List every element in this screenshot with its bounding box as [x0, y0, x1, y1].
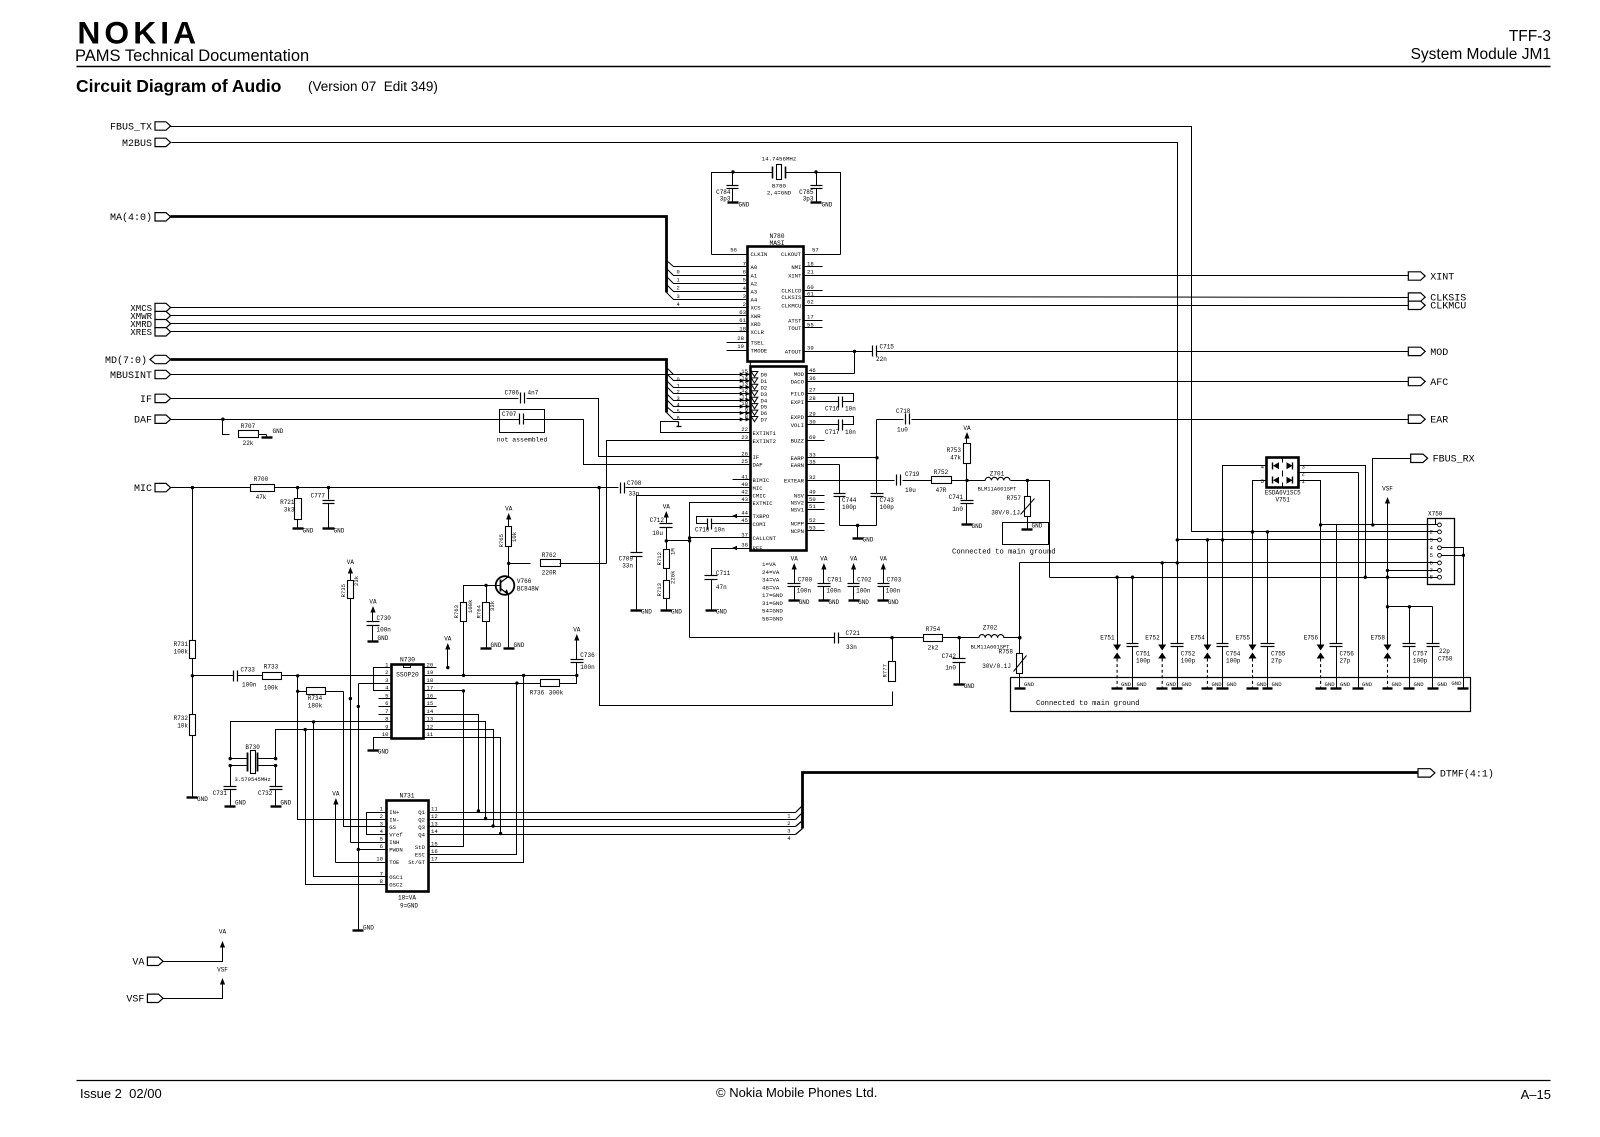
wire Q3 to DTMF bus [441, 826, 796, 828]
svg-text:C700: C700 [798, 577, 813, 584]
svg-text:GND: GND [1166, 681, 1177, 688]
svg-text:47k: 47k [950, 455, 961, 462]
svg-text:XRES: XRES [130, 328, 152, 338]
svg-text:C712: C712 [650, 517, 665, 524]
ground C732 [271, 805, 282, 807]
wire N731 PWDN [359, 849, 387, 851]
ground R707 [266, 435, 268, 438]
wire EXTINT1 [661, 422, 733, 433]
svg-text:C758: C758 [1438, 656, 1453, 663]
wire CMIC / capacitor C709 33n [637, 496, 751, 553]
N780 pin 18 NMI [804, 266, 823, 268]
N780 pin 5 A2 [730, 283, 748, 285]
svg-text:PAMS Technical Documentation: PAMS Technical Documentation [75, 47, 309, 65]
svg-text:C742: C742 [942, 653, 957, 660]
ground C709 [631, 609, 642, 611]
svg-text:61: 61 [739, 317, 746, 324]
ground [1404, 687, 1415, 689]
svg-text:Q2: Q2 [418, 817, 425, 824]
svg-text:C733: C733 [241, 667, 256, 674]
svg-text:3: 3 [380, 821, 383, 828]
svg-text:1n0: 1n0 [952, 506, 963, 513]
resistor R764 33k [486, 586, 488, 603]
svg-text:GND: GND [1340, 681, 1351, 688]
wire N731 OSC2 [306, 730, 387, 885]
svg-text:7: 7 [385, 708, 388, 715]
wire N730 pin1-pin4 bracket [374, 668, 392, 691]
svg-text:R763: R763 [453, 605, 460, 618]
wire MBUSINT to D0 [171, 374, 733, 376]
svg-text:R733: R733 [264, 664, 279, 671]
svg-text:CLKMCU: CLKMCU [1430, 302, 1466, 313]
svg-text:GND: GND [1182, 681, 1193, 688]
wire XMCS [171, 307, 730, 309]
svg-text:3: 3 [787, 829, 790, 835]
wire CLKMCU [823, 305, 1409, 307]
svg-text:XINT: XINT [788, 272, 802, 279]
bus tap MD4 [667, 394, 733, 401]
bus tap MD7 [667, 413, 733, 420]
svg-text:C711: C711 [716, 570, 731, 577]
inductor Z701 BLM11A601SPT [985, 477, 1010, 480]
port VSF [147, 994, 163, 1002]
capacitor C712 10u with VA [664, 511, 669, 518]
svg-text:GND: GND [1392, 681, 1403, 688]
svg-text:1u0: 1u0 [897, 427, 908, 434]
svg-text:GND: GND [1257, 681, 1268, 688]
N731 pin 12 Q2 [429, 819, 441, 821]
svg-text:EXTINT1: EXTINT1 [753, 430, 777, 437]
svg-text:10n: 10n [845, 406, 856, 413]
svg-text:PWDN: PWDN [389, 847, 402, 854]
svg-text:R765: R765 [498, 534, 505, 547]
wire VSF port [163, 987, 223, 999]
svg-text:GND: GND [197, 796, 208, 803]
crystal B780 14.7456MHz [772, 167, 774, 179]
N731 pin 14 Q4 [429, 834, 441, 836]
N780 pin 60 CLKLCD [804, 290, 823, 292]
svg-text:Circuit Diagram of Audio: Circuit Diagram of Audio [76, 76, 281, 96]
svg-text:45: 45 [741, 517, 748, 524]
svg-text:180k: 180k [308, 703, 323, 710]
port XMWR [155, 311, 171, 319]
svg-text:10u: 10u [905, 487, 916, 494]
svg-text:47k: 47k [256, 494, 267, 501]
svg-text:100p: 100p [1136, 658, 1151, 665]
bus tap MA4 [667, 293, 730, 300]
svg-text:GND: GND [828, 599, 839, 606]
svg-text:23: 23 [741, 434, 748, 441]
wire crystal loop [712, 173, 773, 255]
wire XRES [171, 331, 730, 333]
svg-text:GND: GND [964, 683, 975, 690]
svg-text:21: 21 [807, 269, 814, 276]
N780 pin 61 XRD [730, 323, 748, 325]
svg-text:INH: INH [389, 839, 399, 846]
svg-text:ATOUT: ATOUT [785, 349, 802, 356]
wire XMRD [171, 323, 730, 325]
svg-text:REF: REF [753, 545, 763, 552]
svg-text:CLKOUT: CLKOUT [781, 251, 802, 258]
svg-text:EXTEAR: EXTEAR [784, 478, 805, 485]
wire R712 node to CALLCNT vertical [667, 540, 690, 542]
svg-text:VA: VA [369, 599, 377, 606]
svg-text:4: 4 [787, 836, 790, 842]
svg-text:30V/0.1J: 30V/0.1J [991, 510, 1020, 517]
svg-text:0: 0 [677, 270, 680, 276]
svg-text:FILO: FILO [791, 390, 805, 397]
bus tap MD1 [667, 374, 733, 381]
svg-text:R713: R713 [656, 583, 663, 596]
wire X750 row7 [1388, 570, 1438, 572]
svg-text:1: 1 [677, 278, 680, 284]
svg-text:300k: 300k [549, 690, 564, 697]
port MIC [155, 483, 171, 491]
connector X750 [1428, 519, 1455, 585]
svg-text:R752: R752 [934, 469, 949, 476]
N780 pin 27 FILO [807, 393, 825, 395]
resistor R700 47k [251, 485, 275, 492]
wire FBUS_RX to X750 pin1 [1373, 459, 1411, 525]
N780 pin 11 D4 [733, 400, 751, 402]
svg-text:1=VA: 1=VA [762, 561, 776, 568]
footer rule [77, 1080, 1551, 1082]
svg-text:GND: GND [491, 642, 502, 649]
wire ESt to N730 pin18 [429, 684, 517, 855]
svg-text:A–15: A–15 [1521, 1087, 1551, 1102]
port M2BUS [155, 138, 171, 146]
IC N730 SSOP20 [392, 665, 424, 739]
port FBUS_TX [155, 122, 171, 130]
svg-text:23k: 23k [353, 575, 360, 586]
svg-text:VSF: VSF [1382, 486, 1393, 493]
svg-text:NSV2: NSV2 [791, 500, 804, 507]
N780 pin 3 A4 [730, 299, 748, 301]
ground C702 [849, 599, 860, 601]
svg-text:DAF: DAF [134, 416, 152, 427]
svg-text:5: 5 [1261, 478, 1264, 485]
svg-text:18: 18 [807, 261, 814, 268]
N780 pin 41 BIMIC [733, 479, 751, 481]
capacitor C755 27p [1267, 532, 1269, 644]
svg-text:R757: R757 [1007, 495, 1022, 502]
wire ATOUT to C715 [823, 351, 873, 353]
svg-text:VA: VA [573, 627, 581, 634]
wire R735 to N731 INH [351, 842, 387, 844]
svg-text:10u: 10u [652, 530, 663, 537]
suppressor E758 [1384, 645, 1392, 651]
wire N730 pin3 [359, 683, 392, 685]
svg-text:IF: IF [753, 454, 760, 461]
svg-text:53: 53 [809, 524, 816, 531]
wire MIC net [171, 487, 619, 489]
svg-text:VA: VA [347, 559, 355, 566]
svg-text:GND: GND [363, 925, 374, 932]
N780 pin 69 BUZZ [807, 440, 825, 442]
varistor R757 30V/0.1J [1027, 481, 1029, 497]
svg-text:GS: GS [389, 824, 396, 831]
svg-text:A4: A4 [751, 297, 758, 304]
capacitor C706 4n7 [520, 393, 522, 404]
wire St/GT to N730 pin19 [429, 676, 524, 863]
capacitor C754 100p [1222, 540, 1224, 644]
svg-text:10k: 10k [177, 723, 188, 730]
svg-text:EXTMIC: EXTMIC [753, 500, 774, 507]
svg-text:GND: GND [858, 599, 869, 606]
svg-text:GND: GND [378, 749, 389, 756]
svg-text:Q1: Q1 [418, 809, 425, 816]
svg-text:37: 37 [741, 531, 748, 538]
resistor R712 1M [664, 550, 670, 569]
svg-text:27p: 27p [1271, 658, 1282, 665]
svg-text:C777: C777 [311, 493, 326, 500]
svg-text:8: 8 [1430, 574, 1434, 581]
N780 pin 55 TOUT [804, 327, 823, 329]
bus tap MD3 [667, 387, 733, 394]
svg-text:1: 1 [787, 814, 790, 820]
ground [1458, 687, 1469, 689]
capacitor C742 1n0 [959, 638, 961, 659]
svg-text:R777: R777 [882, 664, 889, 677]
svg-text:100k: 100k [174, 649, 189, 656]
svg-text:C731: C731 [213, 790, 228, 797]
suppressor E751 [1117, 578, 1119, 645]
ground [1247, 687, 1259, 689]
capacitor C703 100n with VA [881, 563, 886, 570]
svg-text:VA: VA [505, 506, 513, 513]
svg-text:2: 2 [787, 821, 790, 827]
svg-text:MIC: MIC [753, 485, 764, 492]
svg-text:MASI: MASI [769, 240, 784, 247]
svg-text:2k2: 2k2 [928, 645, 939, 652]
svg-text:N730: N730 [400, 657, 415, 664]
svg-text:C703: C703 [887, 577, 902, 584]
svg-text:58=GND: 58=GND [762, 615, 783, 622]
svg-text:28: 28 [737, 335, 744, 342]
svg-text:GND: GND [716, 609, 727, 616]
N780 pin 26 IF [733, 456, 751, 458]
svg-text:3: 3 [1430, 536, 1434, 543]
svg-text:1n0: 1n0 [945, 665, 956, 672]
svg-text:32: 32 [809, 474, 816, 481]
capacitor C718 1u0 [877, 419, 904, 421]
svg-text:C744: C744 [842, 497, 857, 504]
svg-text:Issue 2 02/00: Issue 2 02/00 [80, 1086, 162, 1101]
svg-text:GND: GND [1325, 681, 1336, 688]
svg-text:C707: C707 [502, 411, 517, 418]
N780 pin 30 VOLI [807, 424, 825, 426]
svg-text:C706: C706 [505, 390, 520, 397]
capacitor C757 100p [1409, 607, 1411, 644]
svg-text:C730: C730 [377, 615, 392, 622]
svg-text:46: 46 [809, 367, 816, 374]
svg-text:56: 56 [730, 247, 737, 254]
svg-text:57: 57 [812, 247, 819, 254]
svg-text:47n: 47n [716, 584, 727, 591]
port MA(4:0) [155, 213, 171, 221]
svg-text:4: 4 [1430, 544, 1434, 551]
N780 pin 61 CLKSIS [804, 296, 823, 298]
capacitor C751 100p [1132, 578, 1134, 644]
svg-text:61: 61 [807, 290, 814, 297]
X750 pin 2 [1438, 530, 1442, 534]
N731 pin 15 StD [429, 846, 441, 848]
svg-text:GND: GND [1227, 681, 1238, 688]
svg-text:BUZZ: BUZZ [791, 438, 805, 445]
svg-text:27p: 27p [1340, 658, 1351, 665]
capacitor C743 100p [876, 458, 878, 494]
ground [1428, 687, 1439, 689]
svg-text:GND: GND [799, 599, 810, 606]
svg-text:R734: R734 [308, 695, 323, 702]
svg-text:50: 50 [809, 496, 816, 503]
svg-text:100p: 100p [1181, 658, 1196, 665]
svg-text:NMI: NMI [791, 264, 801, 271]
wire B730 left to N730 pin8 [231, 722, 392, 759]
svg-text:100n: 100n [886, 588, 901, 595]
svg-text:GND: GND [972, 523, 983, 530]
wire N730 pin13 to Q2 [437, 722, 486, 819]
svg-text:2: 2 [677, 286, 680, 292]
svg-text:GND: GND [1121, 681, 1132, 688]
resistor R731 100k [192, 488, 194, 641]
svg-text:6: 6 [1430, 559, 1434, 566]
svg-text:XINT: XINT [1430, 272, 1454, 283]
svg-text:V751: V751 [1275, 497, 1290, 504]
wire V751 pin2 tail to ground [1358, 473, 1360, 689]
svg-text:15: 15 [431, 841, 438, 848]
svg-text:C716: C716 [825, 406, 840, 413]
svg-text:M2BUS: M2BUS [122, 139, 152, 150]
resistor R754 2k2 [924, 635, 943, 642]
crystal B730 3.579545MHz [231, 758, 247, 760]
svg-text:C736: C736 [580, 652, 595, 659]
wire N730 pin14 to Q1 [437, 715, 479, 811]
svg-text:100p: 100p [1226, 658, 1241, 665]
svg-text:OSC2: OSC2 [389, 882, 402, 889]
N780 pin 12 D3 [733, 393, 751, 395]
svg-text:R712: R712 [656, 552, 663, 565]
resistor R765 10k with VA [506, 513, 511, 520]
svg-text:GND: GND [641, 609, 652, 616]
svg-text:IN+: IN+ [389, 809, 400, 816]
N731 pin 17 St/GT [429, 862, 441, 864]
capacitor C744 100p [839, 465, 841, 494]
svg-text:3k3: 3k3 [284, 507, 295, 514]
svg-text:22n: 22n [876, 356, 887, 363]
N780 pin 45 COMI [733, 523, 751, 525]
bus tap MD0 [667, 368, 733, 375]
suppressor E752 [1162, 563, 1164, 645]
port AFC [1408, 377, 1425, 385]
svg-text:GND: GND [334, 528, 345, 535]
svg-text:100n: 100n [826, 588, 841, 595]
ground [1217, 687, 1229, 689]
svg-text:3: 3 [743, 293, 746, 300]
svg-text:IF: IF [140, 395, 152, 406]
N780 pin 9 D6 [733, 412, 751, 414]
svg-text:14.7456MHz: 14.7456MHz [762, 156, 797, 163]
svg-text:GND: GND [822, 202, 833, 209]
svg-text:31=GND: 31=GND [762, 600, 783, 607]
wire B730 right to N730 pin9 [276, 730, 392, 759]
svg-text:69: 69 [809, 434, 816, 441]
N780 pin 33 EARP [807, 457, 825, 459]
capacitor C716 10n loop FILO-EXPI [807, 394, 854, 402]
N780 pin 4 A3 [730, 291, 748, 293]
N780 pin 38 REF [733, 548, 751, 550]
svg-text:22k: 22k [243, 440, 254, 447]
svg-text:R736: R736 [530, 690, 545, 697]
svg-text:34=VA: 34=VA [762, 577, 780, 584]
wire caps common to ground [840, 525, 877, 527]
svg-text:XCLR: XCLR [751, 329, 765, 336]
resistor R734 180k [298, 691, 307, 693]
svg-text:GND: GND [1451, 680, 1462, 687]
wire XINT [823, 275, 1409, 277]
svg-text:7: 7 [743, 261, 746, 268]
IC N731 [387, 801, 429, 892]
svg-text:5: 5 [1430, 552, 1434, 559]
capacitor C710 10n loop TXBPO-COMI [697, 517, 733, 524]
svg-text:R732: R732 [174, 715, 189, 722]
svg-text:R731: R731 [174, 641, 189, 648]
svg-text:System Module JM1: System Module JM1 [1411, 46, 1551, 63]
wire EARN [825, 464, 840, 466]
svg-text:2: 2 [380, 813, 383, 820]
capacitor C758 22p [1432, 607, 1434, 644]
svg-text:27: 27 [809, 387, 816, 394]
ground C701 [819, 599, 830, 601]
N780 pin 51 NSV1 [807, 509, 825, 511]
svg-text:24=VA: 24=VA [762, 569, 780, 576]
N780 pin 43 EXTMIC [733, 502, 751, 504]
IC N780 MASI lower box [751, 367, 807, 551]
svg-text:E754: E754 [1190, 635, 1205, 642]
wire N731 TOE VA [333, 798, 338, 805]
svg-text:R735: R735 [340, 584, 347, 597]
ground [1157, 687, 1168, 689]
svg-text:44: 44 [741, 510, 748, 517]
port MBUSINT [155, 370, 171, 378]
svg-text:Connected to main ground: Connected to main ground [1036, 700, 1140, 708]
svg-text:C715: C715 [880, 344, 895, 351]
ground C777 [323, 527, 335, 529]
svg-text:BC848W: BC848W [517, 586, 539, 593]
wire N730 pin12 to Q3 [437, 730, 494, 827]
svg-text:51: 51 [809, 503, 816, 510]
capacitor C701 100n with VA [821, 563, 826, 570]
suppressor E754 [1207, 540, 1209, 645]
wire X750 row2 FBUS_TX [1192, 531, 1438, 533]
wire Q2 to DTMF bus [441, 819, 796, 821]
svg-text:NSV: NSV [794, 492, 805, 499]
wire N730 pin18 row / resistor R736 300k [437, 683, 541, 685]
svg-text:2: 2 [743, 301, 746, 308]
ground [1263, 687, 1273, 689]
svg-text:SSOP20: SSOP20 [396, 672, 419, 679]
port XRES [155, 328, 171, 336]
svg-text:VA: VA [880, 556, 888, 563]
svg-text:18: 18 [427, 677, 434, 684]
wire EXTEAR net [825, 480, 895, 482]
wire CLKSIS [823, 297, 1409, 298]
svg-text:13: 13 [431, 821, 438, 828]
wire AFC from DACO [825, 381, 1409, 383]
svg-text:0: 0 [677, 377, 680, 383]
svg-text:EARP: EARP [791, 455, 805, 462]
port DTMF(4:1) [1418, 769, 1435, 777]
